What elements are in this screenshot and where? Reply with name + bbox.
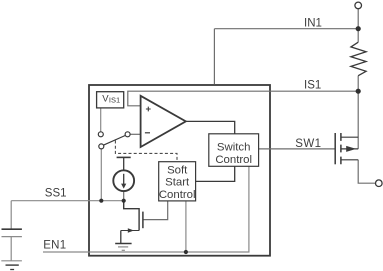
svg-text:IS1: IS1: [109, 96, 120, 105]
svg-text:IS1: IS1: [304, 80, 321, 92]
svg-text:SW1: SW1: [295, 138, 321, 150]
svg-text:Start: Start: [165, 177, 190, 189]
svg-text:EN1: EN1: [43, 240, 66, 252]
svg-text:Soft: Soft: [167, 164, 188, 176]
svg-text:Switch: Switch: [217, 142, 251, 154]
svg-text:IN1: IN1: [304, 18, 322, 30]
svg-text:Control: Control: [159, 189, 196, 201]
svg-text:Control: Control: [215, 154, 252, 166]
svg-text:SS1: SS1: [45, 187, 67, 199]
